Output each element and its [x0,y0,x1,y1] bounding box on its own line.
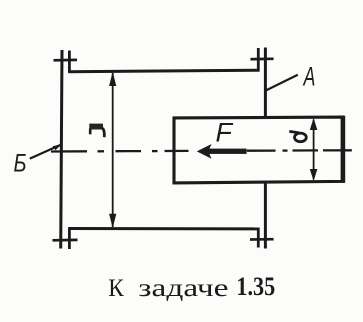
leader arrowhead Б [53,144,62,150]
wire stub top-left [68,51,71,73]
wire stub bottom-left [68,228,71,250]
tick bottom-right [250,238,274,241]
tube A right edge (thick) [341,116,346,183]
wire right wall lower [264,183,267,249]
wire right wall upper (tube side) [264,48,267,118]
leader line to Б [30,145,61,159]
svg-text:1.35: 1.35 [236,272,275,301]
wire left wall of cylinder Б [61,50,62,249]
center line (axis, dash-dot) [51,150,352,151]
force F arrow head [197,144,212,159]
axis dash 6 [323,149,352,151]
svg-text:задаче: задаче [138,275,228,302]
svg-text:К: К [108,274,124,302]
label D (rotated): left leg [89,129,92,135]
tick bottom-left [53,239,78,242]
dimension D arrow down [109,214,116,228]
axis dash 3 [165,150,189,152]
axis dash 1 [51,150,87,152]
label d (rotated): stem [289,131,299,133]
dimension d arrow up [310,118,318,130]
svg-text:F: F [216,117,234,147]
tube A outline [174,117,343,183]
wire stub top-right [257,48,260,72]
axis dot 3 [283,149,288,151]
wire stub bottom-right [257,228,260,248]
axis dot 2 [152,150,158,152]
wire bottom edge [68,227,259,230]
dimension D arrow up [109,72,116,86]
svg-text:A: A [302,61,315,92]
tick top-right [250,57,273,60]
label D (rotated): right leg [103,128,105,137]
axis dash 5 [293,149,319,151]
dimension d arrow down [310,169,318,181]
dimension d line [313,120,315,180]
force F arrow shaft [207,149,247,154]
label D (rotated): bowl top [89,124,103,130]
wire top edge [68,70,259,72]
axis dash 4 [247,149,276,151]
label d (rotated): bowl [295,133,307,142]
dimension D line [112,73,114,227]
axis dot 1 [98,150,105,152]
tick top-left [54,59,78,62]
leader line to A [266,75,298,91]
svg-text:Б: Б [14,149,27,177]
axis dash 2 [116,150,142,152]
